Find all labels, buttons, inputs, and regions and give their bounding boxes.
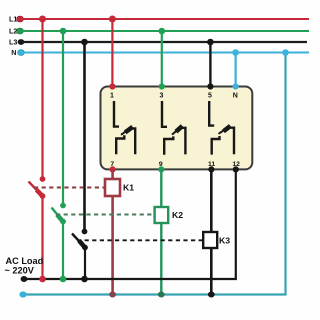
node K3 on neutral bus (208, 292, 215, 298)
node junction L2-S2 (60, 28, 67, 35)
contact S3a (pins 5-11) (209, 101, 234, 155)
pin 9 (158, 166, 164, 172)
relay coil K3 (203, 232, 217, 248)
wire L3 phase bus (21, 41, 307, 43)
pin 11 (208, 166, 214, 172)
svg-text:N: N (11, 49, 16, 57)
svg-text:~ 220V: ~ 220V (5, 266, 35, 276)
wire L2 phase bus (20, 30, 309, 32)
wire L1 phase bus (20, 18, 309, 20)
node junction L1-pin1 (109, 16, 116, 23)
wire S3 to load bus (84, 248, 86, 280)
svg-text:1: 1 (110, 93, 114, 100)
pin 5 (207, 83, 213, 89)
wire L1 to switch S1 (41, 19, 43, 179)
relay coil K1 (105, 179, 120, 196)
svg-text:K1: K1 (123, 182, 134, 192)
svg-text:L3: L3 (9, 39, 17, 47)
wire N down right side to neutral load bus (23, 53, 286, 295)
pin 1 (109, 83, 115, 89)
terminal dot neutral load bus (19, 291, 26, 297)
wire L1 to pin 1 (111, 19, 113, 87)
node junction L1-S1 (39, 16, 46, 23)
svg-text:L1: L1 (9, 16, 17, 24)
contact S2a (pins 3-9) (162, 101, 185, 155)
terminal dot N (18, 50, 25, 56)
switch contact S1 (red) (29, 176, 46, 199)
node junction L3-S3 (81, 39, 88, 46)
relay coil K2 (155, 207, 169, 223)
wire L3 to switch S3 (83, 42, 86, 232)
svg-text:AC Load: AC Load (6, 256, 44, 266)
wire pin 11 to K3 and neutral load bus (210, 169, 213, 294)
node junction L3-pin5 (207, 39, 214, 46)
node S1 on load bus (39, 276, 46, 283)
node junction L2-pin3 (159, 28, 166, 35)
pin 3 (159, 83, 165, 89)
wire L2 to pin 3 (161, 31, 163, 87)
terminal dot L3 (18, 39, 25, 45)
contactor module body (101, 87, 253, 170)
switch contact S2 (green) (52, 203, 66, 225)
wire L3 to pin 5 (209, 42, 211, 87)
svg-text:L2: L2 (9, 28, 17, 36)
terminal dot L2 (17, 28, 24, 34)
pin 12 (233, 166, 239, 172)
svg-text:3: 3 (160, 93, 164, 100)
terminal dot L1 (17, 16, 24, 22)
wire L2 to switch S2 (62, 31, 64, 206)
node junction N-pinN (232, 49, 239, 56)
node S2 on load bus (60, 276, 67, 283)
wire N to pin N (235, 53, 237, 87)
svg-text:K3: K3 (219, 235, 230, 245)
svg-text:5: 5 (208, 93, 212, 100)
wire S1 to load bus (41, 196, 43, 279)
svg-text:7: 7 (110, 161, 114, 168)
svg-text:N: N (233, 93, 238, 100)
contact S1a (pins 1-7) (114, 101, 135, 154)
wire N neutral bus (21, 52, 309, 54)
wire pin 7 to K1 and neutral load bus (111, 169, 114, 294)
pin 7 (110, 166, 116, 172)
mechanical link S2-K2 (56, 214, 155, 216)
node S3 on load bus (81, 276, 88, 283)
mechanical link S1-K1 (34, 187, 105, 189)
pin N (233, 83, 239, 89)
wire pin 9 to K2 and neutral load bus (160, 169, 162, 294)
svg-text:12: 12 (232, 161, 240, 168)
node K2 on neutral bus (158, 292, 165, 298)
wire pin 12 to switched load bus (24, 169, 236, 279)
svg-text:K2: K2 (172, 210, 183, 220)
wire S2 to load bus (62, 222, 64, 280)
terminal dot load bus (21, 276, 28, 282)
switch contact S3 (black) (72, 229, 88, 251)
svg-text:9: 9 (159, 161, 163, 168)
node K1 on neutral bus (109, 292, 116, 298)
node junction N-right drop (282, 49, 289, 56)
svg-text:11: 11 (208, 161, 215, 168)
mechanical link S3-K3 (77, 239, 203, 241)
